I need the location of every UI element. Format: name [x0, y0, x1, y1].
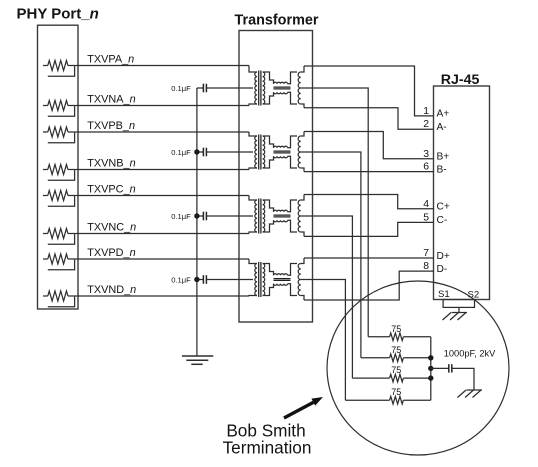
- choke T1 core: [274, 86, 291, 88]
- svg-text:D+: D+: [437, 251, 450, 262]
- svg-text:PHY Port_n: PHY Port_n: [17, 5, 99, 22]
- choke T2 core: [274, 150, 291, 152]
- svg-text:B-: B-: [437, 164, 447, 175]
- transformer T3 core: [258, 199, 260, 234]
- wire TXVPB: [78, 131, 249, 133]
- PHY Port box: [38, 25, 79, 309]
- choke T2 output leads: [288, 136, 298, 148]
- transformer T4 line-side winding: [298, 264, 301, 296]
- transformer T4 primary winding: [255, 264, 257, 296]
- choke T3 core: [274, 214, 291, 216]
- transformer T1 core: [258, 71, 260, 106]
- transformer T1 secondary leads: [263, 72, 274, 84]
- svg-text:75: 75: [391, 365, 401, 375]
- transformer T3 secondary leads: [263, 200, 274, 212]
- choke T3 output leads: [288, 200, 298, 212]
- resistor 75 ohm R2t: [361, 357, 390, 359]
- choke T2 bottom winding: [274, 156, 288, 158]
- svg-text:A-: A-: [437, 122, 447, 133]
- transformer T4 secondary leads: [263, 264, 274, 276]
- junction dot termination rail: [428, 366, 433, 371]
- wire T4 centre tap to termination: [301, 280, 346, 401]
- resistor R7 (TXVPD): [43, 258, 48, 260]
- transformer T2 primary lead bottom: [249, 168, 257, 170]
- resistor 75 ohm R1t: [368, 336, 389, 338]
- transformer T3 primary lead top: [249, 196, 257, 201]
- transformer T2 secondary winding: [263, 136, 265, 168]
- capacitor C1 0.1uF: [197, 87, 204, 89]
- transformer T2 line-side leads: [301, 132, 304, 137]
- transformer T1 line-side winding: [298, 72, 301, 104]
- wire TXVPC: [78, 195, 249, 197]
- wire capacitor rail: [196, 88, 198, 356]
- choke T2 top winding: [274, 146, 288, 148]
- svg-text:3: 3: [423, 149, 429, 160]
- transformer T4 secondary winding: [263, 264, 265, 296]
- choke T3 top winding: [274, 210, 288, 212]
- wire T1 centre tap to termination: [301, 88, 369, 337]
- svg-text:C+: C+: [437, 202, 450, 213]
- choke T1 bottom winding: [274, 92, 288, 94]
- svg-text:2: 2: [423, 119, 429, 130]
- RJ-45 connector box: [434, 86, 490, 300]
- capacitor C3 0.1uF: [197, 215, 204, 217]
- chassis ground (RJ-45 shield): [452, 312, 468, 314]
- transformer T1 secondary winding: [263, 72, 265, 104]
- resistor R5 (TXVPC): [43, 195, 48, 197]
- svg-text:Termination: Termination: [223, 437, 312, 457]
- svg-text:0.1μF: 0.1μF: [171, 212, 191, 221]
- choke T4 top winding: [274, 274, 288, 276]
- choke T1 top winding: [274, 82, 288, 84]
- transformer T3 primary winding: [255, 200, 257, 232]
- svg-text:A+: A+: [437, 109, 450, 120]
- junction dot cap rail 4: [194, 277, 199, 282]
- svg-text:TXVPC_n: TXVPC_n: [87, 184, 135, 196]
- svg-text:B+: B+: [437, 152, 450, 163]
- resistor 75 ohm R4t: [345, 399, 389, 401]
- resistor R2 (TXVNA): [43, 105, 48, 107]
- wire to RJ-45 pin 3: [304, 132, 434, 159]
- wire to RJ-45 pin 6: [304, 171, 434, 173]
- wire TXVNC: [78, 233, 249, 235]
- svg-text:4: 4: [423, 199, 429, 210]
- resistor R1 (TXVPA): [43, 65, 48, 67]
- transformer T1 primary lead bottom: [249, 104, 257, 106]
- wire TXVND: [78, 295, 249, 297]
- svg-text:1: 1: [423, 106, 429, 117]
- svg-text:TXVPA_n: TXVPA_n: [87, 54, 134, 66]
- junction dot termination rail: [428, 355, 433, 360]
- svg-text:S1: S1: [438, 289, 450, 300]
- capacitor 1000pF 2kV: [431, 367, 449, 369]
- svg-text:TXVND_n: TXVND_n: [87, 284, 136, 296]
- choke T4 output leads: [288, 264, 298, 276]
- svg-text:TXVNA_n: TXVNA_n: [87, 94, 135, 106]
- wire to RJ-45 pin 5: [304, 222, 434, 236]
- transformer T2 secondary leads: [263, 136, 274, 148]
- wire T2 centre tap to termination: [301, 152, 361, 358]
- svg-text:TXVNC_n: TXVNC_n: [87, 222, 136, 234]
- transformer T2 primary lead top: [249, 132, 257, 136]
- wire TXVPD: [78, 258, 249, 260]
- wire termination rail: [430, 337, 432, 400]
- transformer T1 primary lead top: [249, 66, 257, 73]
- resistor R6 (TXVNC): [43, 233, 48, 235]
- junction dot termination rail: [428, 375, 433, 380]
- transformer T4 primary lead bottom: [249, 295, 257, 298]
- transformer T3 secondary winding: [263, 200, 265, 232]
- svg-text:1000pF, 2kV: 1000pF, 2kV: [444, 349, 496, 359]
- svg-text:8: 8: [423, 261, 429, 272]
- wire T3 centre tap to termination: [301, 216, 353, 378]
- wire TXVNA: [78, 105, 249, 107]
- transformer T2 line-side winding: [298, 136, 301, 168]
- transformer T2 core: [258, 135, 260, 170]
- wire to RJ-45 pin 1: [304, 66, 434, 116]
- svg-text:75: 75: [391, 324, 401, 334]
- wire to RJ-45 pin 8: [304, 271, 434, 300]
- resistor R4 (TXVNB): [43, 169, 48, 171]
- svg-text:C-: C-: [437, 215, 448, 226]
- wire to RJ-45 pin 4: [304, 195, 434, 209]
- svg-text:Transformer: Transformer: [235, 13, 319, 29]
- wire TXVPA: [78, 65, 249, 67]
- transformer T4 core: [258, 262, 260, 297]
- svg-text:0.1μF: 0.1μF: [171, 275, 191, 284]
- Transformer box: [239, 31, 313, 323]
- transformer T3 line-side leads: [301, 195, 304, 201]
- resistor R3 (TXVPB): [43, 131, 48, 133]
- Bob Smith termination circle: [327, 281, 509, 455]
- junction dot cap rail 3: [194, 213, 199, 218]
- svg-text:TXVPD_n: TXVPD_n: [87, 247, 135, 259]
- svg-text:0.1μF: 0.1μF: [171, 148, 191, 157]
- chassis ground (termination cap): [467, 389, 483, 391]
- svg-text:75: 75: [391, 387, 401, 397]
- transformer T3 primary lead bottom: [249, 232, 257, 234]
- wire shield stub: [458, 307, 460, 312]
- svg-text:5: 5: [423, 212, 429, 223]
- transformer T3 line-side winding: [298, 200, 301, 232]
- transformer T2 primary winding: [255, 136, 257, 168]
- wire to RJ-45 pin 2: [304, 108, 434, 129]
- arrow to termination circle: [284, 402, 314, 418]
- svg-text:6: 6: [423, 162, 429, 173]
- junction dot cap rail 2: [194, 149, 199, 154]
- capacitor C4 0.1uF: [197, 279, 204, 281]
- svg-text:TXVPB_n: TXVPB_n: [87, 120, 135, 132]
- svg-text:0.1μF: 0.1μF: [171, 84, 191, 93]
- resistor 75 ohm R3t: [352, 377, 389, 379]
- capacitor C2 0.1uF: [197, 151, 204, 153]
- transformer T1 primary winding: [255, 72, 257, 104]
- svg-text:75: 75: [391, 345, 401, 355]
- wire to RJ-45 pin 7: [304, 257, 434, 259]
- transformer T4 primary lead top: [249, 259, 257, 264]
- transformer T1 line-side leads: [301, 66, 304, 72]
- wire TXVNB: [78, 169, 249, 171]
- choke T4 core: [274, 278, 291, 280]
- svg-text:7: 7: [423, 248, 429, 259]
- choke T1 output leads: [288, 72, 298, 84]
- resistor R8 (TXVND): [43, 295, 48, 297]
- RJ-45 shield tab: [443, 300, 474, 308]
- choke T3 bottom winding: [274, 220, 288, 222]
- choke T4 bottom winding: [274, 284, 288, 286]
- svg-text:D-: D-: [437, 264, 448, 275]
- transformer T4 line-side leads: [301, 258, 304, 264]
- svg-text:TXVNB_n: TXVNB_n: [87, 158, 135, 170]
- ground symbol (caps): [182, 355, 213, 357]
